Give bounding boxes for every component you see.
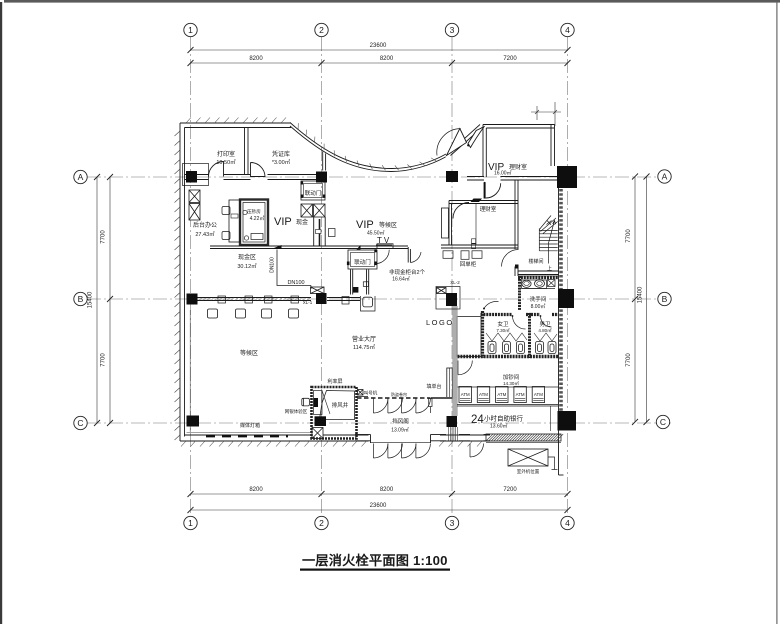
svg-text:ATM: ATM bbox=[461, 392, 470, 397]
svg-text:7.30㎡: 7.30㎡ bbox=[496, 327, 510, 333]
svg-text:加钞间: 加钞间 bbox=[503, 373, 520, 381]
svg-text:13.09㎡: 13.09㎡ bbox=[391, 427, 409, 434]
svg-text:23600: 23600 bbox=[370, 43, 387, 49]
svg-text:打印室: 打印室 bbox=[217, 150, 235, 158]
svg-text:媒体灯箱: 媒体灯箱 bbox=[240, 422, 260, 429]
svg-text:8200: 8200 bbox=[380, 56, 394, 62]
svg-text:8200: 8200 bbox=[249, 487, 263, 493]
svg-text:3: 3 bbox=[450, 25, 455, 35]
svg-text:压钞房: 压钞房 bbox=[247, 208, 261, 215]
svg-text:利率屏: 利率屏 bbox=[327, 378, 342, 385]
svg-text:A: A bbox=[662, 172, 668, 182]
svg-text:ATM: ATM bbox=[497, 392, 506, 397]
svg-text:现金区: 现金区 bbox=[238, 253, 256, 261]
svg-text:7700: 7700 bbox=[101, 353, 107, 367]
svg-text:C: C bbox=[77, 418, 83, 428]
svg-text:4.22㎡: 4.22㎡ bbox=[250, 215, 265, 222]
svg-text:30.12㎡: 30.12㎡ bbox=[237, 262, 257, 270]
svg-text:非现金柜台2个: 非现金柜台2个 bbox=[389, 268, 426, 276]
svg-text:C: C bbox=[660, 417, 666, 427]
svg-text:23600: 23600 bbox=[370, 503, 387, 509]
svg-text:4: 4 bbox=[565, 25, 570, 35]
svg-text:8200: 8200 bbox=[249, 56, 263, 62]
svg-text:等候区: 等候区 bbox=[379, 221, 397, 229]
svg-text:7200: 7200 bbox=[503, 56, 517, 62]
svg-text:室外机位置: 室外机位置 bbox=[517, 468, 540, 475]
svg-text:洗手间: 洗手间 bbox=[530, 295, 547, 303]
svg-text:B: B bbox=[78, 294, 84, 304]
svg-text:后台办公: 后台办公 bbox=[193, 221, 217, 229]
svg-text:LOGO: LOGO bbox=[426, 318, 454, 327]
svg-text:10.50㎡: 10.50㎡ bbox=[216, 158, 236, 166]
svg-text:4: 4 bbox=[565, 518, 570, 528]
svg-text:16.64㎡: 16.64㎡ bbox=[392, 276, 410, 283]
svg-text:回单柜: 回单柜 bbox=[460, 260, 477, 268]
svg-text:联动门: 联动门 bbox=[354, 258, 371, 266]
svg-text:一层消火栓平面图 1:100: 一层消火栓平面图 1:100 bbox=[302, 552, 448, 568]
svg-text:TV: TV bbox=[377, 236, 391, 245]
svg-text:等候区: 等候区 bbox=[240, 349, 258, 357]
svg-text:*3.00㎡: *3.00㎡ bbox=[272, 158, 291, 166]
svg-text:网银体验区: 网银体验区 bbox=[285, 408, 308, 415]
svg-text:2: 2 bbox=[319, 518, 324, 528]
svg-text:VIP: VIP bbox=[356, 219, 374, 231]
svg-text:现金: 现金 bbox=[296, 218, 308, 226]
svg-text:15400: 15400 bbox=[88, 291, 94, 308]
svg-text:16.00㎡: 16.00㎡ bbox=[494, 170, 512, 177]
svg-text:ATM: ATM bbox=[516, 392, 525, 397]
svg-text:A: A bbox=[78, 172, 84, 182]
svg-text:叫号机: 叫号机 bbox=[364, 390, 378, 397]
svg-text:24: 24 bbox=[471, 414, 484, 426]
svg-text:14.30㎡: 14.30㎡ bbox=[503, 380, 519, 386]
svg-text:VIP: VIP bbox=[274, 216, 292, 228]
svg-text:7700: 7700 bbox=[101, 230, 107, 244]
svg-text:B: B bbox=[662, 294, 668, 304]
svg-text:防盗卷帘: 防盗卷帘 bbox=[391, 391, 407, 397]
svg-text:楼梯间: 楼梯间 bbox=[528, 258, 543, 265]
svg-text:15400: 15400 bbox=[638, 286, 644, 303]
svg-text:3: 3 bbox=[450, 518, 455, 528]
svg-text:男卫: 男卫 bbox=[539, 321, 551, 328]
svg-text:挡风阁: 挡风阁 bbox=[392, 417, 409, 425]
svg-text:小时自助银行: 小时自助银行 bbox=[484, 414, 524, 423]
svg-text:7700: 7700 bbox=[626, 229, 632, 243]
svg-text:联动门: 联动门 bbox=[305, 189, 322, 197]
svg-text:7200: 7200 bbox=[503, 487, 517, 493]
svg-text:理财室: 理财室 bbox=[480, 205, 497, 213]
svg-text:8200: 8200 bbox=[380, 487, 394, 493]
svg-text:填单台: 填单台 bbox=[426, 383, 441, 390]
svg-text:ATM: ATM bbox=[479, 392, 488, 397]
svg-text:2: 2 bbox=[319, 25, 324, 35]
svg-text:女卫: 女卫 bbox=[497, 320, 509, 328]
svg-text:7700: 7700 bbox=[626, 353, 632, 367]
svg-text:XL-2: XL-2 bbox=[450, 280, 460, 285]
svg-text:排风井: 排风井 bbox=[332, 401, 349, 409]
svg-text:13.60㎡: 13.60㎡ bbox=[490, 423, 508, 430]
svg-text:上: 上 bbox=[547, 265, 552, 272]
svg-text:1: 1 bbox=[188, 518, 193, 528]
svg-text:8.00㎡: 8.00㎡ bbox=[531, 303, 546, 310]
svg-text:1: 1 bbox=[188, 25, 193, 35]
svg-text:DN100: DN100 bbox=[270, 257, 276, 273]
svg-text:理财室: 理财室 bbox=[509, 163, 527, 171]
svg-text:XL-1: XL-1 bbox=[303, 300, 313, 305]
svg-text:凭证库: 凭证库 bbox=[272, 150, 290, 158]
svg-text:ATM: ATM bbox=[534, 392, 543, 397]
svg-text:114.75㎡: 114.75㎡ bbox=[353, 343, 375, 351]
svg-text:营业大厅: 营业大厅 bbox=[352, 335, 376, 343]
svg-text:27.43㎡: 27.43㎡ bbox=[195, 230, 215, 238]
svg-text:DN100: DN100 bbox=[287, 280, 304, 286]
svg-text:4.80㎡: 4.80㎡ bbox=[538, 327, 552, 333]
